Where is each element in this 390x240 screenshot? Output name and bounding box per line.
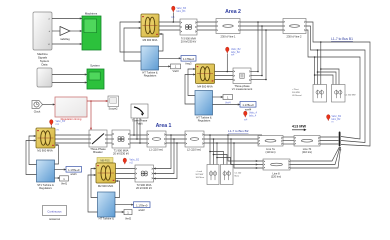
subsystem HTG M3 regulators <box>141 46 159 78</box>
signal label m2 <box>123 158 140 164</box>
svg-text:(110 km): (110 km) <box>302 150 312 154</box>
svg-text:L1-7 to Bus B1: L1-7 to Bus B1 <box>331 37 353 41</box>
wire <box>228 135 263 169</box>
svg-text:m: m <box>332 121 334 124</box>
wire <box>159 65 171 67</box>
fault Three-Phase Fault <box>131 104 148 126</box>
svg-text:Vref4: Vref4 <box>225 102 231 105</box>
svg-text:L1-7 to Bus B2: L1-7 to Bus B2 <box>228 129 249 133</box>
scope System <box>87 64 104 90</box>
display d1 <box>66 167 82 177</box>
svg-text:L1 (110 km): L1 (110 km) <box>149 148 163 152</box>
wire <box>43 103 56 105</box>
svg-text:Regulators: Regulators <box>144 74 157 78</box>
annotation 413 MW <box>292 125 307 132</box>
wire bus <box>55 129 89 144</box>
wire load taps <box>314 41 339 84</box>
svg-text:Regulators: Regulators <box>198 119 211 123</box>
svg-text:wref1: wref1 <box>70 172 77 176</box>
svg-text:1.178e+0: 1.178e+0 <box>242 103 254 107</box>
wire bus <box>130 134 147 144</box>
subsystem Machine Signals <box>33 12 52 60</box>
wire bus <box>116 169 136 179</box>
wire fault signal <box>87 100 108 130</box>
scope Scope2 <box>108 96 119 111</box>
svg-text:Iabc_B3: Iabc_B3 <box>177 10 186 13</box>
wire <box>213 102 241 106</box>
svg-text:230 kV line 1: 230 kV line 1 <box>221 35 237 39</box>
svg-text:Machines: Machines <box>85 12 98 16</box>
svg-text:M3 900 MVA: M3 900 MVA <box>143 38 158 42</box>
signal label Vabc B3 <box>171 6 187 23</box>
svg-text:20 kV/230 kV: 20 kV/230 kV <box>136 186 152 190</box>
wire fault taps <box>134 118 140 143</box>
svg-text:Area 2: Area 2 <box>225 9 241 15</box>
svg-text:Vref1: Vref1 <box>61 182 68 186</box>
signal label m4 <box>244 111 258 122</box>
subsystem HTG M4 regulators <box>195 91 213 123</box>
svg-text:HT Turbine &: HT Turbine & <box>99 217 115 220</box>
transformer Tr3 <box>180 19 197 44</box>
wire <box>52 73 87 75</box>
svg-text:M4 900 MVA: M4 900 MVA <box>197 85 213 89</box>
wire <box>88 167 98 212</box>
svg-text:+ Load: + Load <box>196 171 203 173</box>
constant Vref3 <box>171 64 181 73</box>
load area2 a <box>292 85 327 103</box>
svg-text:Fault: Fault <box>137 122 143 126</box>
machine M1 <box>36 128 55 153</box>
svg-text:967 MW: 967 MW <box>196 174 204 176</box>
machine M2 <box>96 163 116 188</box>
svg-text:Data: Data <box>42 63 48 67</box>
line L7a <box>258 136 283 155</box>
line L2 area1 <box>185 131 204 152</box>
load area2 b <box>332 85 356 103</box>
svg-text:+ Plant: + Plant <box>292 88 299 91</box>
svg-text:Regulators: Regulators <box>39 186 52 190</box>
wire bus <box>320 137 339 144</box>
constant Vref2 <box>124 210 132 221</box>
constant Vref4 <box>223 95 233 100</box>
subsystem M2 regulators <box>98 192 116 221</box>
svg-text:Scope2: Scope2 <box>108 107 118 111</box>
wire <box>290 147 341 168</box>
svg-text:Continuous: Continuous <box>47 209 62 213</box>
wire <box>159 57 182 59</box>
line L1 area1 <box>147 131 166 152</box>
svg-text:freq3: freq3 <box>186 62 192 66</box>
svg-text:powergui: powergui <box>49 217 60 220</box>
wire bus <box>107 135 112 143</box>
svg-text:C1 200: C1 200 <box>235 173 243 175</box>
wire <box>26 135 37 175</box>
wire <box>52 30 60 32</box>
wire <box>52 81 87 83</box>
svg-text:Clock: Clock <box>34 110 41 114</box>
wire bus <box>166 134 185 144</box>
machine M4 <box>196 64 215 89</box>
annotation L17 to Bus B2 <box>331 37 353 41</box>
wire <box>159 33 164 51</box>
wire bus <box>204 135 228 143</box>
wire bus <box>159 22 180 30</box>
wire <box>55 168 67 170</box>
display d4 <box>240 102 256 112</box>
transformer T2 <box>135 165 154 190</box>
line L7b <box>294 136 320 155</box>
wire right bus <box>306 22 370 146</box>
load area1 b <box>221 165 243 185</box>
svg-text:MB-PSS: MB-PSS <box>100 160 110 163</box>
svg-text:Area 1: Area 1 <box>156 123 172 129</box>
wire load taps <box>209 134 230 164</box>
svg-text:100 Mvar: 100 Mvar <box>196 176 205 179</box>
wire <box>52 43 82 45</box>
wire <box>55 144 59 164</box>
svg-text:Breaker: Breaker <box>93 150 103 154</box>
svg-text:V-I measurement: V-I measurement <box>232 87 253 91</box>
svg-text:rad2deg: rad2deg <box>60 37 70 41</box>
annotation L17 to Bus B1 <box>228 129 249 133</box>
line L8 <box>263 159 290 179</box>
svg-text:1.178e+0: 1.178e+0 <box>136 203 148 207</box>
svg-text:1.178e+0: 1.178e+0 <box>68 168 80 172</box>
annotation Area 2 <box>225 9 241 15</box>
wire bus <box>283 137 294 144</box>
wire <box>213 96 224 98</box>
breaker Three-Phase Breaker <box>89 130 107 154</box>
svg-text:C2 350 MW: C2 350 MW <box>345 95 356 97</box>
display d2 <box>134 202 151 212</box>
svg-text:LB Reeval: LB Reeval <box>292 95 302 97</box>
wire bus <box>215 72 234 80</box>
svg-text:Iabc_4: Iabc_4 <box>249 114 257 117</box>
svg-text:Mvar: Mvar <box>235 175 240 178</box>
wire <box>115 180 120 198</box>
line L1 area2 <box>216 19 240 39</box>
scope Machines <box>82 12 101 51</box>
wire <box>52 17 82 19</box>
svg-text:500 MW: 500 MW <box>292 92 300 94</box>
junction bus bar <box>339 132 342 152</box>
subsystem M1 regulators <box>37 160 55 190</box>
svg-text:(110 km): (110 km) <box>265 150 275 154</box>
signal label m1 <box>50 120 66 129</box>
svg-text:20 kV/230 kV: 20 kV/230 kV <box>181 40 197 44</box>
wire bus B1 <box>227 134 262 144</box>
svg-text:230 kV line 2: 230 kV line 2 <box>287 35 303 39</box>
load area1 a <box>196 165 220 185</box>
svg-text:1.178e+0: 1.178e+0 <box>183 57 195 61</box>
wire bus <box>197 22 216 30</box>
wire <box>251 71 267 81</box>
constant Vref1 <box>60 176 69 186</box>
annotation PSS tag <box>97 158 113 163</box>
wire bus B2 taps <box>257 21 267 79</box>
svg-text:20 kV/230 kV: 20 kV/230 kV <box>113 152 129 156</box>
wire T2 taps <box>154 135 178 180</box>
wire <box>70 30 82 32</box>
wire <box>115 204 134 206</box>
display d3 <box>181 56 196 66</box>
svg-text:L2 (110 km): L2 (110 km) <box>187 148 201 152</box>
svg-text:wref2: wref2 <box>138 208 145 212</box>
machine M3 <box>141 14 159 42</box>
svg-text:Vref2: Vref2 <box>125 217 132 221</box>
wire bus <box>240 22 283 30</box>
svg-text:M2 900 MVA: M2 900 MVA <box>98 184 114 188</box>
signal label B2 <box>226 47 242 72</box>
wire <box>185 68 196 104</box>
svg-text:Vref3: Vref3 <box>172 69 179 73</box>
transformer T1 <box>112 130 130 156</box>
clock block <box>32 101 43 114</box>
svg-text:M1 900 MVA: M1 900 MVA <box>37 149 53 153</box>
wire <box>55 177 61 179</box>
signal label B2b <box>326 115 341 124</box>
svg-text:413 MW: 413 MW <box>292 125 307 129</box>
svg-text:(220 km): (220 km) <box>271 175 281 179</box>
gain rad2deg <box>60 27 70 42</box>
annotation Area 1 <box>156 123 172 129</box>
wire <box>115 211 124 213</box>
measurement B2 <box>232 68 253 91</box>
svg-text:System: System <box>90 64 100 68</box>
subsystem Regulation Timing <box>55 97 87 121</box>
wire <box>120 21 141 61</box>
subsystem System Data <box>37 59 52 87</box>
line L2 area2 <box>283 19 306 39</box>
powergui <box>43 206 67 221</box>
